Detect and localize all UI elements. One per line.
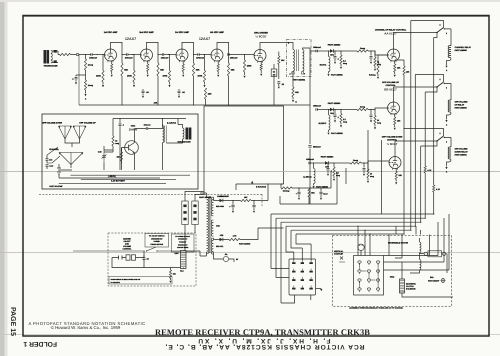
coupler symbol (339, 257, 345, 263)
svg-text:680mmf: 680mmf (306, 158, 314, 161)
resistor 4.7K line 1 (433, 185, 435, 192)
wires interconnect strips (185, 192, 204, 252)
svg-text:TRANSDUCER: TRANSDUCER (44, 65, 59, 68)
svg-text:PART #28593: PART #28593 (331, 132, 343, 135)
wire chain CR2 to grid (368, 108, 388, 110)
diode CR1 (330, 49, 333, 53)
svg-text:3.3meg: 3.3meg (283, 190, 290, 193)
capacitor 680mmf chain CR1 (316, 50, 317, 53)
svg-text:BB 6CG7: BB 6CG7 (384, 87, 397, 91)
motor board contact 1-4 (358, 288, 361, 290)
interconnect plug P1 (289, 259, 316, 295)
wire vertical bus 4 (414, 75, 416, 227)
wire plate to bus 3 (193, 76, 195, 105)
ground plug (320, 289, 322, 291)
interconnect strip B (192, 201, 198, 225)
resistor R10 100K (204, 55, 206, 71)
battery B1 22.5V (57, 168, 61, 174)
wire plate to bus 4 (228, 76, 230, 105)
svg-text:SOLENOID: SOLENOID (406, 288, 416, 291)
capacitor 40mf C (298, 188, 300, 197)
ground stage 2 grid (133, 82, 135, 85)
svg-text:PART #28607: PART #28607 (428, 279, 439, 282)
svg-text:150K: 150K (247, 65, 252, 68)
wire driver plate (260, 43, 293, 51)
motor board contact 3-3 (376, 279, 379, 281)
transformer T1 core (297, 50, 299, 72)
svg-text:.05: .05 (146, 91, 149, 94)
svg-text:2M: 2M (117, 156, 120, 159)
bus wire 2 (276, 217, 425, 219)
capacitor .05 decoupling stage3 (178, 91, 181, 93)
motor board contact 1-2 (358, 270, 361, 272)
wire b network return (280, 172, 337, 204)
svg-text:10K: 10K (154, 102, 158, 105)
svg-text:270mmf: 270mmf (196, 57, 204, 60)
svg-text:100mmf: 100mmf (230, 57, 238, 60)
diode CR2 (330, 108, 333, 112)
svg-text:CR5: CR5 (220, 234, 224, 237)
resistor 68K driver B+ (292, 87, 294, 97)
fuse .5A (223, 256, 228, 261)
motor board contact 2-1 (367, 261, 370, 263)
svg-text:1meg: 1meg (88, 64, 94, 67)
svg-text:40.7KC: 40.7KC (320, 64, 327, 67)
thermal cutout (441, 278, 446, 283)
wire relay K3 pivot drop (421, 141, 437, 146)
svg-text:AND: AND (125, 243, 130, 246)
wire wrap rectangle (204, 106, 284, 195)
vibrator fan off-volume down (59, 126, 72, 128)
svg-text:3: 3 (446, 87, 447, 90)
plate wire stage 3 (182, 42, 194, 63)
relay contact K2 NC lead (415, 75, 443, 83)
svg-text:2nd KRC AMP: 2nd KRC AMP (139, 31, 154, 34)
svg-text:MASTER: MASTER (123, 237, 131, 240)
svg-text:mmf: mmf (49, 164, 53, 167)
node A relay K2 (445, 120, 447, 122)
switch arms transmitter (47, 147, 60, 163)
resistor 1meg series chain CR3 (334, 162, 350, 164)
motor capacitor box (428, 251, 442, 257)
capacitor .05 line filter (143, 258, 146, 260)
wire plug to switch (112, 251, 181, 268)
capacitor .1 input (76, 75, 86, 82)
note components on tv chassis (power) (109, 277, 172, 285)
wire output node 1 (122, 54, 126, 56)
capacitor .02 driver (277, 82, 280, 84)
resistor 10K filter (241, 199, 252, 201)
svg-text:6W: 6W (273, 73, 276, 76)
ground coil CR2 (328, 130, 330, 132)
svg-text:MAGNETIC: MAGNETIC (406, 282, 417, 285)
svg-text:.1: .1 (72, 77, 74, 80)
TV chassis assembly boundary (333, 236, 452, 307)
fold crease mid2 (0, 251, 500, 254)
plug P1 contact 3-4 (309, 288, 312, 290)
resistor 4.7K line 2 (424, 166, 426, 173)
svg-text:½ 6CG7: ½ 6CG7 (387, 142, 398, 146)
resistor 1meg series chain CR2 (341, 109, 357, 111)
bus left drops to plug (271, 214, 311, 303)
resistor 2.2meg chain CR1 (340, 50, 341, 51)
title chassis list line2 (rotated) (197, 337, 331, 344)
resistor 6.8meg grid AA (377, 62, 379, 74)
fold crease 2 (0, 333, 500, 336)
svg-text:12AX7: 12AX7 (125, 37, 136, 41)
svg-text:10mf: 10mf (323, 192, 328, 195)
capacitor C4 270mmf (198, 53, 199, 56)
ground stage 3 grid (169, 82, 171, 85)
node B driver (292, 97, 294, 100)
plate wire tube BB 6CG7 to relay (394, 87, 437, 102)
transformer T1 primary (293, 50, 295, 72)
TV chassis dashed separator (39, 194, 262, 206)
svg-text:COUPLER: COUPLER (334, 253, 344, 256)
svg-text:2: 2 (440, 24, 441, 27)
on-off switch S1 (73, 250, 145, 252)
AC interlock plug (114, 256, 126, 260)
wire B line (267, 184, 269, 201)
svg-text:41.25KC: 41.25KC (318, 122, 326, 125)
wire vertical bus 2 (424, 92, 426, 166)
svg-text:OFF-VOLUME DOWN: OFF-VOLUME DOWN (382, 136, 403, 139)
resistor 68K b network (308, 188, 310, 197)
solenoid wire (395, 235, 402, 280)
capacitor .1 grid CR1 (370, 50, 371, 51)
ground stage 4 grid (204, 82, 206, 85)
svg-text:(ASSEMBLY INTERCHANGEABILITY G: (ASSEMBLY INTERCHANGEABILITY GUIDE ARE O… (349, 307, 403, 310)
svg-text:22K: 22K (208, 93, 212, 96)
svg-text:1st KRC AMP: 1st KRC AMP (104, 31, 118, 34)
wire T2 primary (200, 193, 207, 256)
motor board contact 3-2 (376, 270, 379, 272)
wire relay K2 pivot drop (425, 87, 437, 92)
resistor 6.8K bleeder (170, 268, 172, 271)
wire vertical bus 6 (395, 60, 404, 66)
bus wire 3 (281, 221, 421, 223)
wire fan bus (65, 139, 80, 168)
svg-text:CR1: CR1 (330, 54, 334, 57)
svg-text:REMOTE RECEIVER CTP9A, TRANSMI: REMOTE RECEIVER CTP9A, TRANSMITTER CRK3B (155, 327, 370, 337)
diode CR5 (214, 238, 220, 240)
wire vertical bus 3 (420, 146, 422, 222)
svg-text:50Ω: 50Ω (430, 276, 434, 279)
plug P1 contact 2-3 (301, 279, 304, 281)
motor board contact 2-2 (367, 270, 370, 272)
svg-text:.1: .1 (122, 124, 124, 127)
triode V3 12AX7 (3rd KRC AMP) (176, 49, 188, 62)
capacitor 40mf B (253, 200, 254, 201)
bus wire 4 (286, 225, 415, 227)
svg-text:100mmf: 100mmf (89, 57, 97, 60)
coil L 40.7KC (328, 51, 330, 57)
svg-text:B SOURCE: B SOURCE (256, 186, 267, 189)
svg-text:4th KRC AMP: 4th KRC AMP (210, 31, 224, 34)
motor field coil B (420, 260, 422, 271)
transformer T1 terminals (292, 72, 294, 74)
plug P1 contact 2-2 (301, 271, 304, 273)
interconnect strip A (182, 201, 188, 225)
svg-text:1meg: 1meg (360, 105, 366, 108)
relay contact K1 NC lead (411, 21, 444, 28)
svg-text:(L-29C3): (L-29C3) (303, 176, 311, 179)
label FOLDER 1 (rotated) (23, 340, 57, 347)
svg-text:100K: 100K (96, 75, 101, 78)
input transducer (44, 51, 49, 64)
vibrator fan channel (59, 153, 83, 155)
svg-text:PART #S-2734F: PART #S-2734F (49, 185, 63, 188)
svg-text:2: 2 (440, 132, 441, 135)
svg-text:RED-GRN: RED-GRN (216, 205, 225, 208)
wire feed down from filters (309, 163, 311, 204)
triode V5 6CG7 KRC driver (254, 50, 266, 63)
svg-text:4.7K: 4.7K (436, 188, 441, 191)
transformer T1 boundary (287, 40, 312, 77)
wire transmitter returns (59, 175, 190, 184)
plug P1 leads (271, 269, 320, 304)
plate wire tube &#189; 6CG7 to relay (395, 141, 437, 157)
capacitor 680mmf chain3 series (308, 146, 311, 148)
svg-text:68K: 68K (196, 69, 200, 72)
resistor 10K screen (278, 52, 280, 57)
plug P1 contact 2-4 (301, 288, 304, 290)
plate wire stage 2 (147, 42, 159, 63)
svg-text:680mmf: 680mmf (313, 145, 321, 148)
svg-text:PART #28599: PART #28599 (455, 49, 467, 52)
cathode resistor tube &#189; 6CG7 (395, 168, 397, 172)
wire secondary to chain1 (303, 48, 317, 51)
svg-text:© Howard W. Sams & Co., Inc. 1: © Howard W. Sams & Co., Inc. 1959 (51, 325, 121, 330)
svg-text:PART #28598: PART #28598 (239, 243, 250, 246)
svg-text:12AX7: 12AX7 (199, 37, 210, 41)
svg-text:4.2V BATTERY: 4.2V BATTERY (111, 180, 126, 183)
svg-text:F, H, HX, J, JX, M, U, X, XU: F, H, HX, J, JX, M, U, X, XU (197, 337, 331, 344)
node A relay K1 (445, 66, 447, 68)
triode V1 12AX7 (1st KRC AMP) (105, 49, 117, 62)
svg-text:2: 2 (440, 78, 441, 81)
cathode network driver (260, 61, 262, 64)
svg-text:ON-OFF: ON-OFF (124, 240, 132, 243)
bus wire 1 (271, 213, 434, 215)
cathode resistor stage 4 (217, 61, 219, 65)
node A input (85, 90, 87, 94)
resistor R5 68K (plate) (157, 63, 159, 76)
svg-text:PART #28601: PART #28601 (455, 154, 468, 157)
svg-text:PART #28600: PART #28600 (455, 107, 467, 110)
relay contact K3 NC lead (404, 129, 444, 137)
svg-text:PAGE 15: PAGE 15 (9, 307, 16, 336)
resistor 1meg input A (85, 55, 87, 60)
resistor 22K decoupling (204, 88, 206, 99)
transmitter enclosure (42, 114, 198, 189)
wire wrap rectangle inner (283, 172, 285, 184)
coil L 41.25KC (328, 110, 330, 116)
note enclosure on tv chassis 2 (215, 269, 217, 271)
wire plate to bus 1 (121, 76, 123, 105)
fold crease (0, 170, 500, 173)
capacitor .1 osc (119, 119, 121, 171)
cathode resistor stage 3 (182, 61, 184, 65)
svg-text:680mmf: 680mmf (313, 46, 321, 49)
relay contacts K3 (436, 140, 438, 142)
wire input (52, 51, 60, 63)
ground stage 1 grid (102, 82, 104, 85)
wire plate to bus 2 (157, 76, 159, 105)
svg-text:CHANNEL RELAY: CHANNEL RELAY (455, 46, 472, 49)
cathode resistor stage 2 (147, 61, 149, 65)
svg-text:DOWN RELAY: DOWN RELAY (455, 151, 469, 154)
resistor input series (60, 53, 71, 55)
TV chassis power boundary (108, 233, 196, 286)
svg-text:270mmf: 270mmf (125, 57, 133, 60)
capacitor C1 100mmf (91, 53, 92, 56)
wire grid stage 4 (199, 54, 211, 56)
terminal J1 (76, 53, 78, 55)
bus wire 6 (296, 233, 404, 235)
resistor R2 68K (plate) (121, 63, 123, 76)
resistor 10meg grid CR1 (374, 50, 375, 51)
triode V4 12AX7 (4th KRC AMP) (211, 49, 223, 62)
wire transmitter top rail (113, 118, 186, 120)
capacitor 100mmf osc (146, 127, 147, 130)
svg-text:OFF-VOLUME: OFF-VOLUME (455, 101, 469, 104)
svg-text:100mmf: 100mmf (161, 57, 169, 60)
motor board internal wires (360, 263, 379, 288)
resistor R7 100K (169, 55, 171, 71)
capacitor .1 chain CR3 (327, 162, 328, 163)
svg-text:150Ω: 150Ω (390, 276, 395, 279)
svg-text:1meg: 1meg (88, 84, 94, 87)
resistor R1 100K (102, 55, 104, 71)
triode V2 12AX7 (2nd KRC AMP) (141, 49, 153, 62)
resistor 10meg grid CR3 (367, 162, 368, 163)
svg-text:OFF VOLUME UP: OFF VOLUME UP (79, 122, 96, 125)
svg-text:CLUTCH: CLUTCH (406, 285, 414, 288)
output transducer (186, 128, 191, 139)
svg-text:FOLDER 1: FOLDER 1 (23, 340, 57, 347)
plug P1 contact 2-1 (301, 262, 304, 264)
plug P1 contact 3-3 (309, 279, 312, 281)
coil L (L-29C3) (313, 163, 315, 169)
oscillator coil L1 (163, 126, 165, 143)
capacitor C3 100mmf (162, 53, 163, 56)
wire output node 2 (158, 54, 162, 56)
svg-text:½ 6CG7: ½ 6CG7 (255, 35, 267, 39)
svg-text:1meg: 1meg (353, 159, 359, 162)
motor M1 (358, 244, 364, 250)
capacitor .05 decoupling stage2 (142, 89, 144, 95)
wire b network frame (235, 184, 237, 190)
triode V7 (BB 6CG7) (388, 102, 400, 115)
wire 5K box (273, 64, 275, 105)
cathode resistor stage 1 (111, 61, 113, 65)
resistor 1meg input B (85, 70, 87, 80)
svg-text:PART #28591: PART #28591 (331, 73, 343, 76)
svg-text:PART #28592: PART #28592 (328, 43, 341, 46)
svg-text:6.8meg: 6.8meg (369, 74, 376, 77)
triode V8 (&#189; 6CG7) (389, 157, 401, 170)
resistor 2.2meg chain CR3 (333, 162, 334, 163)
diode CR4 (214, 197, 220, 201)
circuit breaker heater (181, 251, 187, 269)
wire grid stage 1 (92, 54, 105, 56)
svg-text:VOLUME: VOLUME (123, 245, 131, 248)
magnetic clutch solenoid coil (400, 279, 405, 293)
wire vertical bus 1 (433, 38, 435, 186)
motor board contact 2-3 (367, 279, 370, 281)
relay contacts K1 (436, 32, 438, 34)
resistor R11 68K (plate) (227, 63, 229, 76)
transformer T1 secondary (303, 50, 305, 72)
wire output node 3 (194, 54, 198, 56)
svg-text:.05: .05 (146, 258, 148, 261)
svg-text:.05: .05 (182, 91, 185, 94)
svg-text:PART #28591: PART #28591 (293, 79, 306, 82)
power transformer T2 (207, 197, 209, 254)
resistor 10meg osc (112, 136, 114, 146)
svg-text:68K: 68K (160, 69, 164, 72)
ground coil CR3 (313, 184, 315, 186)
ground coil CR1 (328, 72, 330, 74)
svg-text:REVERSIBLE MOTOR: REVERSIBLE MOTOR (388, 242, 409, 245)
svg-text:100mmf: 100mmf (144, 124, 151, 127)
resistor 1meg series chain CR1 (341, 50, 357, 52)
relay coil K1 (448, 46, 451, 58)
wire chain CR1 node (317, 50, 330, 52)
capacitor 100mmf B (46, 165, 49, 167)
svg-text:68K: 68K (231, 69, 235, 72)
wires in dashed box (384, 214, 450, 270)
svg-text:PART #28594: PART #28594 (321, 155, 334, 158)
svg-text:OFF-VOLUME: OFF-VOLUME (455, 148, 469, 151)
wire grid stage 2 (128, 54, 141, 56)
svg-text:RED-YEL: RED-YEL (216, 245, 223, 248)
capacitor 680mmf chain CR3 (309, 162, 310, 165)
svg-text:OFF-VOLUME DOWN: OFF-VOLUME DOWN (42, 122, 63, 125)
svg-text:(L-129AC): (L-129AC) (167, 121, 176, 124)
svg-text:TRANSDUCER: TRANSDUCER (177, 141, 191, 144)
motor board contact 3-4 (376, 288, 379, 290)
transistor Q1 2N406 (125, 141, 139, 155)
B+ bus top section (79, 104, 310, 106)
resistor 4.7K rect (229, 238, 240, 240)
resistor R8 68K (plate) (192, 63, 194, 76)
resistor R4 100K (133, 55, 135, 71)
wire chain CR3 node (310, 162, 325, 164)
motor board contact 1-1 (358, 261, 361, 263)
triode V6 (AA 6CG7) (388, 49, 400, 62)
wire chain CR1 to grid (368, 51, 388, 55)
bus wire 5 (291, 229, 411, 231)
bus drops to motor (358, 226, 370, 255)
plug P1 contact 1-3 (292, 279, 295, 281)
wire vertical x381 (381, 140, 383, 214)
plate wire tube AA 6CG7 to relay (394, 33, 437, 50)
svg-text:3rd KRC AMP: 3rd KRC AMP (175, 31, 189, 34)
cathode resistor tube BB 6CG7 (394, 114, 396, 118)
svg-text:CR4: CR4 (220, 195, 224, 198)
diode CR3 (325, 161, 328, 165)
svg-text:1meg: 1meg (360, 47, 366, 50)
svg-text:100K: 100K (198, 75, 203, 78)
wire relay K1 pivot drop (434, 33, 437, 38)
wire vertical bus 5 (410, 21, 412, 231)
wire to driver (229, 54, 254, 56)
capacitor 40mf A (232, 200, 233, 201)
svg-text:CONTROL: CONTROL (123, 248, 133, 251)
plug P1 contact 1-1 (292, 262, 295, 264)
